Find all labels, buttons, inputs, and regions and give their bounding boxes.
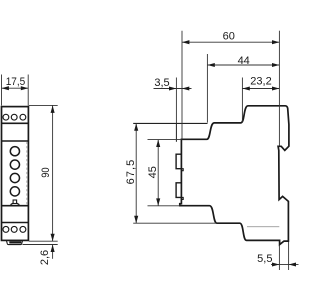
bump notches — [182, 169, 183, 200]
hidden inner edge line — [26, 142, 28, 205]
ext right (60/44/23,2) — [278, 31, 280, 146]
17,5 ext lines — [1, 75, 3, 106]
45 dim line — [157, 140, 159, 206]
svg-text:2,6: 2,6 — [39, 250, 51, 265]
3,5 dim line w tails — [154, 88, 192, 90]
middle circles — [10, 147, 19, 156]
arrow 2,6 (up from below) — [51, 245, 55, 252]
svg-text:45: 45 — [147, 166, 159, 178]
67,5 dim line — [135, 123, 137, 223]
arrows 67,5 — [134, 123, 138, 130]
divider top cover bottom — [2, 140, 29, 142]
svg-text:90: 90 — [40, 167, 52, 177]
90 ext top — [29, 104, 58, 106]
17,5 dim line — [2, 87, 29, 89]
arrows 60 — [182, 40, 189, 44]
arrows 3,5 (outside) — [169, 86, 176, 90]
ext 3,5-left — [175, 78, 177, 124]
ext 44-left — [206, 54, 208, 123]
top cover front face — [175, 123, 177, 141]
90 ext bottom — [29, 240, 58, 242]
arrows 23,2 — [242, 86, 249, 90]
svg-text:23,2: 23,2 — [250, 76, 271, 88]
top terminal circles — [3, 114, 9, 120]
44 dim line — [207, 64, 279, 66]
divider bottom terminal box — [2, 222, 29, 224]
ext 23,2-left — [241, 78, 243, 122]
top cover top edge + 67,5 ext — [133, 122, 207, 124]
arrows 45 — [156, 140, 160, 147]
svg-text:60: 60 — [223, 30, 235, 42]
front view dimensions — [2, 75, 58, 259]
bottom terminal circles — [3, 226, 9, 232]
60 dim line — [182, 41, 279, 43]
svg-text:67,5: 67,5 — [125, 160, 137, 185]
5,5 ext left — [278, 246, 280, 271]
DIN foot tab — [7, 241, 23, 245]
90 dim line — [52, 105, 54, 241]
svg-text:44: 44 — [238, 55, 250, 67]
5,5 ext right — [288, 242, 290, 270]
small DIN icon — [11, 200, 20, 205]
svg-text:5,5: 5,5 — [257, 253, 272, 265]
module outline front — [2, 107, 29, 241]
svg-text:17,5: 17,5 — [6, 76, 26, 88]
arrows 17,5 — [2, 86, 9, 90]
main profile outline — [180, 106, 289, 245]
ext 60-left / 3,5-right — [181, 31, 183, 140]
rail groove hidden edge — [247, 226, 279, 228]
arrows 5,5 (outside) — [272, 262, 279, 266]
2,6 ext bottom — [23, 244, 58, 246]
divider top terminal box — [2, 122, 29, 124]
bottom 67,5 ext line — [133, 222, 217, 224]
2,6 tail — [52, 245, 54, 259]
terminal screw bumps — [176, 154, 181, 197]
45 ext top — [148, 139, 182, 141]
45 ext bottom — [148, 205, 180, 207]
divider bottom panel — [2, 205, 29, 207]
arrows 44 — [207, 63, 214, 67]
thin cover lines — [133, 31, 298, 270]
5,5 dim line + tails — [271, 264, 279, 266]
svg-text:3,5: 3,5 — [154, 77, 169, 89]
23,2 dim line — [242, 88, 279, 90]
arrows 90 — [51, 106, 55, 113]
